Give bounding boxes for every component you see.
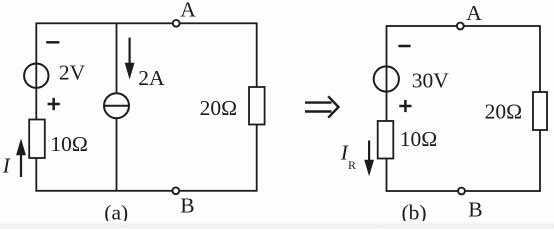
node A terminal (circuit b) [457, 23, 464, 30]
svg-text:B: B [180, 193, 194, 217]
resistor R2 20Ω (circuit a) [249, 87, 265, 125]
current source Is 2A (circle with horizontal bar) [104, 93, 129, 118]
node B terminal (circuit a) [172, 187, 179, 194]
svg-text:20Ω: 20Ω [200, 96, 237, 120]
svg-text:A: A [180, 0, 196, 21]
voltage source Us2 30V (circle, wire passes through) [374, 66, 399, 91]
implication arrow ⇒ [305, 96, 339, 117]
faint scan band at bottom edge [0, 221, 554, 229]
svg-text:10Ω: 10Ω [400, 127, 437, 151]
wire: circuit (a) outer loop [36, 23, 256, 191]
svg-text:R: R [348, 158, 356, 172]
svg-text:10Ω: 10Ω [50, 132, 87, 156]
wire: circuit (b) outer loop [387, 26, 541, 191]
voltage source Us1 2V (circle, wire passes through) [24, 63, 48, 87]
current arrow IR (downward) [364, 141, 374, 177]
wire: circuit (a) middle branch [116, 23, 118, 191]
polarity plus of 2V source [48, 98, 60, 110]
svg-text:20Ω: 20Ω [485, 100, 522, 124]
resistor R1 10Ω (circuit a) [29, 120, 45, 159]
node A terminal (circuit a) [173, 20, 180, 27]
svg-text:2A: 2A [138, 66, 165, 90]
polarity plus of 30V source [399, 100, 411, 112]
svg-text:30V: 30V [412, 69, 450, 93]
current arrow I (upward) [16, 139, 26, 178]
svg-text:A: A [466, 1, 482, 25]
polarity minus of 2V source [46, 41, 59, 44]
polarity minus of 30V source [398, 45, 410, 48]
resistor R4 20Ω (circuit b) [533, 92, 547, 130]
svg-text:2V: 2V [59, 60, 86, 84]
current label I_R (circuit b) [340, 140, 356, 172]
svg-text:I: I [2, 153, 11, 177]
svg-text:B: B [468, 197, 482, 221]
current source direction arrow 2A (downward) [125, 38, 135, 80]
node B terminal (circuit b) [458, 188, 465, 195]
resistor R3 10Ω (circuit b) [378, 121, 394, 159]
